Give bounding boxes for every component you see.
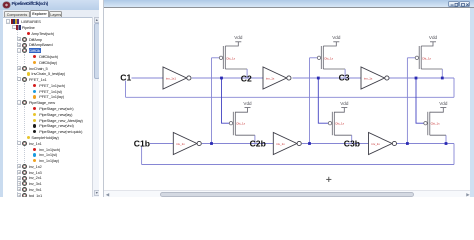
svg-text:Vdd: Vdd (243, 101, 252, 106)
wire Q6 drain drop (445, 135, 447, 143)
pmos Q3 drain lead (323, 68, 345, 70)
pmos Q5 gate bar (418, 46, 420, 69)
pmos Q2 gate bar (232, 112, 234, 135)
inverter U2 (inv_1x, ring1 stage2) (263, 67, 287, 89)
wire Q4 drain drop (351, 135, 353, 143)
pmos Q1 drain lead (225, 68, 247, 70)
origin marker (326, 178, 331, 180)
wire top feedback return (126, 96, 455, 98)
wire Q1 drain drop (246, 69, 248, 78)
wire inv U5 output to node C3b (302, 143, 369, 145)
pmos Q1 source lead (225, 42, 238, 46)
inverter U4 (inv_1x, ring2 stage1) (173, 133, 197, 155)
wire C1b feedback riser (141, 146, 143, 165)
pmos Q5 drain lead (421, 68, 442, 70)
Vdd rail bar (Q2) (245, 107, 251, 109)
wire inv U1 output to node C2 (192, 77, 263, 79)
wire Q3 gate riser to bottom node C2b (309, 58, 311, 144)
wire top feedback right drop (453, 78, 455, 97)
pmos Q6 channel bar (429, 112, 431, 135)
schematic window (104, 8, 470, 189)
pmos Q6 gate bar (427, 112, 429, 135)
wire inv U6 output segment (397, 143, 454, 145)
Vdd rail bar (Q6) (440, 107, 446, 109)
svg-text:Ckt_1x: Ckt_1x (226, 56, 236, 60)
pmos Q1 gate bar (222, 46, 224, 69)
svg-text:C1b: C1b (134, 138, 150, 148)
svg-text:Vdd: Vdd (340, 101, 349, 106)
Vdd rail bar (Q3) (333, 41, 339, 43)
svg-text:inv_1x1: inv_1x1 (166, 77, 176, 81)
left library panel (0, 0, 100, 197)
junction Q6 drain on bottom output (445, 142, 448, 145)
wire Q4 gate riser from top node (318, 78, 328, 123)
svg-text:Vdd: Vdd (439, 101, 448, 106)
wire inv U2 output to node C3 (292, 77, 361, 79)
pmos Q1 gate bubble (219, 56, 222, 59)
pmos Q5 source lead (421, 42, 433, 46)
pmos Q6 drain lead (430, 134, 446, 136)
wire Q1 gate riser to bottom node C2b (211, 58, 213, 144)
svg-text:C2b: C2b (250, 138, 266, 148)
wire C1 input segment (132, 77, 164, 79)
wire C1b input segment (150, 143, 173, 145)
svg-text:C3b: C3b (344, 138, 360, 148)
svg-text:Ckt_1x: Ckt_1x (335, 122, 345, 126)
svg-text:Vdd: Vdd (332, 35, 341, 40)
wire bottom feedback right drop (453, 144, 455, 165)
wire Q1 gate stub (212, 57, 220, 59)
wire inv U4 output to node C2b (202, 143, 273, 145)
Vdd rail bar (Q5) (430, 41, 436, 43)
pmos Q5 channel bar (420, 46, 422, 69)
pmos Q3 gate bubble (317, 56, 320, 59)
svg-text:C1: C1 (120, 72, 131, 82)
svg-text:inv_1x: inv_1x (176, 142, 185, 146)
pmos Q1 channel bar (224, 46, 226, 69)
wire inv U3 output segment (389, 77, 454, 79)
pmos Q2 channel bar (234, 112, 236, 135)
pmos Q4 gate bar (331, 112, 333, 135)
wire Q2 drain drop (254, 135, 256, 143)
junction node C3 to Q4 gate (317, 77, 320, 80)
pmos Q5 gate bubble (415, 56, 418, 59)
pmos Q4 gate bubble (328, 122, 331, 125)
wire Q5 drain drop (441, 69, 443, 78)
svg-text:inv_1x: inv_1x (266, 77, 275, 81)
junction node C2 to Q2 gate (220, 77, 223, 80)
pmos Q2 source lead (235, 108, 247, 113)
svg-text:Ckt_1x: Ckt_1x (431, 122, 441, 126)
pmos Q4 source lead (334, 108, 344, 113)
pmos Q2 drain lead (235, 134, 255, 136)
junction Q5 gate on bottom wire (406, 142, 409, 145)
wire Q3 drain drop (344, 69, 346, 78)
svg-text:inv_1x: inv_1x (372, 142, 381, 146)
svg-text:C3: C3 (339, 73, 350, 83)
wire Q2 gate riser from top node (222, 78, 230, 123)
pmos Q3 source lead (323, 42, 336, 46)
wire C1 feedback riser (125, 81, 127, 98)
svg-text:Ckt_1x: Ckt_1x (236, 122, 246, 126)
junction top output to Q6 gate (415, 77, 418, 80)
pmos Q6 source lead (430, 108, 444, 113)
svg-text:inv_1x: inv_1x (276, 142, 285, 146)
pmos Q3 gate bar (320, 46, 322, 69)
pmos Q3 channel bar (322, 46, 324, 69)
pmos Q4 channel bar (333, 112, 335, 135)
junction Q3 gate on bottom wire (308, 142, 311, 145)
Vdd rail bar (Q1) (235, 41, 241, 43)
junction Q1 gate on bottom wire (210, 142, 213, 145)
inverter U1 (inv_1x1, ring1 stage1) (163, 67, 187, 89)
wire Q6 gate riser from top node (416, 78, 424, 123)
svg-text:inv_1x: inv_1x (364, 77, 373, 81)
svg-text:Vdd: Vdd (234, 35, 243, 40)
Vdd rail bar (Q4) (341, 107, 347, 109)
wire bottom feedback return (142, 164, 454, 166)
pmos Q4 drain lead (334, 134, 351, 136)
pmos Q6 gate bubble (424, 122, 427, 125)
inverter U3 (inv_1x, ring1 stage3) (361, 67, 385, 89)
inverter U6 (inv_1x, ring2 stage3) (369, 133, 393, 155)
wire Q5 gate riser to bottom node C1 (406, 58, 408, 144)
pmos Q2 gate bubble (229, 122, 232, 125)
svg-text:Vdd: Vdd (429, 35, 438, 40)
junction Q5 drain on top output (441, 77, 444, 80)
inverter U5 (inv_1x, ring2 stage2) (273, 133, 297, 155)
wire Q5 gate stub (407, 57, 415, 59)
svg-text:Ckt_1x: Ckt_1x (324, 56, 334, 60)
svg-text:Ckt_1x: Ckt_1x (422, 56, 432, 60)
wire Q3 gate stub (310, 57, 318, 59)
svg-text:C2: C2 (241, 74, 252, 84)
